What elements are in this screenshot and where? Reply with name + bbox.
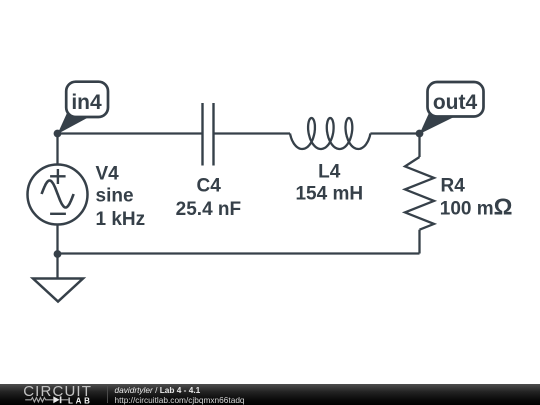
junction node at out4	[416, 130, 424, 138]
node label out4 bubble	[420, 82, 484, 134]
svg-text:C4: C4	[197, 175, 222, 196]
svg-text:in4: in4	[71, 91, 102, 114]
svg-text:R4: R4	[441, 175, 466, 196]
inductor L4	[290, 118, 370, 149]
wire ground stem	[56, 254, 58, 279]
wire R4 bottom down to corner	[418, 230, 420, 254]
svg-text:V4: V4	[96, 163, 120, 184]
resistor R4	[405, 157, 434, 230]
svg-text:L4: L4	[318, 161, 341, 182]
wire V4 bottom to bottom node	[56, 225, 58, 255]
node label in4 bubble	[58, 82, 109, 134]
junction node at in4	[54, 130, 62, 138]
ground	[33, 279, 83, 302]
svg-text:sine: sine	[96, 186, 134, 207]
footer bar	[0, 384, 540, 405]
svg-text:100 mΩ: 100 mΩ	[440, 194, 513, 220]
wire bottom horizontal	[58, 252, 420, 254]
footer title davidrtyler / Lab 4 - 4.1	[115, 385, 201, 395]
svg-text:1 kHz: 1 kHz	[96, 209, 146, 230]
junction node bottom left	[54, 250, 62, 258]
svg-text:25.4 nF: 25.4 nF	[176, 199, 241, 220]
footer divider	[107, 386, 108, 403]
wire out4 node down to R4 top	[418, 134, 420, 158]
svg-text:LAB: LAB	[68, 396, 93, 405]
svg-text:out4: out4	[433, 91, 478, 114]
wire in4 node to C4 left plate	[58, 132, 203, 134]
footer url	[115, 395, 245, 405]
wire L4 to out4 node	[370, 132, 419, 134]
svg-text:154 mH: 154 mH	[295, 184, 363, 205]
wire in4 node down to V4 top	[56, 134, 58, 165]
voltage source V4	[28, 165, 88, 225]
capacitor C4	[203, 103, 214, 166]
wire C4 right plate to L4	[214, 132, 291, 134]
CircuitLab logo	[0, 384, 100, 405]
